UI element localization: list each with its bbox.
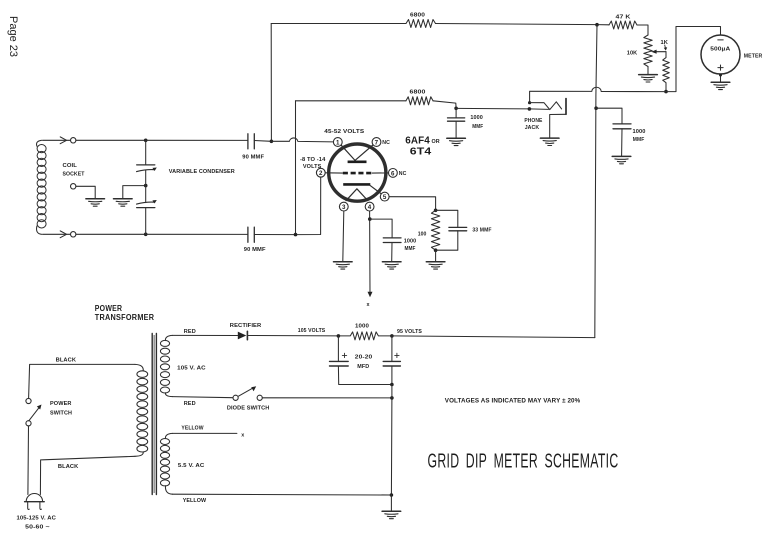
svg-text:6AF4: 6AF4: [405, 135, 430, 146]
pin 3: [339, 202, 348, 211]
resistor R 47K: [609, 21, 637, 29]
svg-text:MMF: MMF: [405, 246, 416, 252]
svg-text:20-20: 20-20: [355, 355, 373, 361]
svg-text:Page 23: Page 23: [7, 16, 19, 57]
ground (cathode pin 3): [334, 262, 353, 269]
phone jack upper spring contact: [530, 102, 562, 110]
svg-text:MFD: MFD: [357, 364, 369, 370]
variable condenser C1a (top section): [145, 140, 147, 164]
wire: bus to 1000 MMF bypass cap: [596, 108, 622, 124]
wire: B+ top rail from node above tube plate to 47K: [271, 23, 406, 25]
ground (detector cap): [447, 138, 466, 145]
capacitor 1000 MMF (detector): [455, 108, 457, 117]
variable condenser C1b (bottom section): [145, 186, 147, 203]
ground (heater bypass cap): [382, 262, 401, 269]
svg-text:6T4: 6T4: [410, 147, 432, 158]
svg-text:7: 7: [375, 139, 379, 146]
svg-text:105 VOLTS: 105 VOLTS: [298, 328, 326, 334]
svg-text:6: 6: [391, 170, 395, 177]
capacitor 20-20 MFD (output section): [391, 336, 393, 361]
phone jack lower contact wire: [529, 108, 548, 111]
svg-text:95 VOLTS: 95 VOLTS: [397, 329, 422, 335]
plus sign cap A: [342, 353, 346, 357]
transformer primary winding: [135, 364, 143, 370]
transformer T1 core: [151, 334, 153, 495]
wire: 90MMF to grid pin1 with hop over grid-leak drop: [254, 138, 333, 142]
potentiometer R 10K: [644, 35, 652, 67]
phone jack sleeve bar: [565, 99, 567, 115]
capacitor 90 MMF (bottom coupling): [248, 227, 254, 242]
svg-text:90 MMF: 90 MMF: [244, 247, 266, 253]
svg-text:x: x: [367, 302, 370, 308]
node 1K bottom / meter return: [664, 90, 668, 94]
svg-text:SOCKET: SOCKET: [63, 172, 85, 178]
pin 4: [365, 202, 374, 211]
coil L1 plug-in coil: [37, 140, 42, 146]
svg-text:YELLOW: YELLOW: [183, 498, 207, 504]
svg-text:JACK: JACK: [525, 125, 540, 131]
wire: BLACK primary top to power switch: [29, 364, 135, 398]
wire: meter bottom to ground: [720, 74, 722, 82]
svg-text:RED: RED: [184, 401, 196, 407]
cathode tap to pin 5: [370, 185, 381, 194]
wire: node to phone jack: [456, 107, 529, 110]
svg-text:x: x: [241, 432, 244, 438]
svg-text:50-60 ~: 50-60 ~: [25, 524, 50, 530]
svg-text:PHONE: PHONE: [524, 118, 542, 124]
transformer secondary 105V winding: [165, 335, 172, 340]
wire: pin 3 to ground: [343, 211, 344, 261]
wire: RED secondary top to rectifier: [173, 334, 238, 336]
svg-text:5.5 V. AC: 5.5 V. AC: [178, 463, 205, 469]
wire: RED secondary bottom to diode switch: [173, 397, 234, 398]
wire: switch to plug left prong: [27, 426, 30, 495]
wire: pin 5 to RC network: [389, 197, 436, 211]
pin 1: [333, 138, 342, 147]
power switch: [26, 398, 31, 403]
svg-text:1: 1: [336, 139, 340, 146]
ground (coil socket): [86, 199, 105, 206]
wire: headphone/meter return rail with hop over bus: [530, 87, 666, 102]
socket terminal circle (top): [71, 138, 76, 143]
wire: diode switch to B- bus: [262, 397, 392, 399]
meter M 500uA: [701, 35, 740, 74]
svg-text:5: 5: [383, 194, 387, 201]
svg-text:TRANSFORMER: TRANSFORMER: [95, 313, 155, 322]
tube grid element (dashed): [325, 172, 388, 174]
wire: tank top rail to 90MMF: [146, 139, 248, 141]
B- bus vertical: [390, 385, 393, 496]
wire: RC bottom to ground: [435, 250, 437, 261]
ground (condenser rotor): [114, 199, 133, 206]
wiper arrowhead: [651, 50, 656, 54]
pin 7: [372, 138, 381, 147]
node bus tap to 1000MMF bypass: [594, 106, 598, 110]
svg-text:COIL: COIL: [63, 163, 78, 169]
resistor R 100 (cathode): [431, 210, 439, 250]
diode switch: [233, 395, 238, 400]
svg-text:RECTIFIER: RECTIFIER: [230, 323, 262, 329]
resistor R 1000 (filter): [338, 332, 392, 340]
svg-text:33 MMF: 33 MMF: [472, 228, 492, 234]
svg-text:VOLTAGES AS INDICATED MAY VARY: VOLTAGES AS INDICATED MAY VARY ± 20%: [445, 397, 581, 404]
wire: top rail continues to 47K: [436, 24, 610, 25]
socket center terminal to ground: [71, 184, 76, 189]
wire: B- to ground: [390, 495, 392, 511]
svg-text:YELLOW: YELLOW: [181, 426, 204, 432]
svg-text:BLACK: BLACK: [58, 464, 79, 470]
ground (phone jack): [540, 138, 559, 145]
wiper arm of 10K pot to 1K: [655, 51, 667, 53]
wire: coil bottom to socket pin: [43, 233, 71, 235]
svg-text:NC: NC: [399, 171, 407, 177]
wire: 10K bottom to ground: [647, 67, 649, 75]
pin 5: [380, 192, 389, 201]
svg-text:4: 4: [368, 204, 372, 211]
capacitor 1000 MMF (bus bypass): [613, 124, 631, 129]
svg-text:100: 100: [418, 231, 427, 237]
tube V1 envelope: [329, 144, 386, 201]
svg-text:SWITCH: SWITCH: [50, 411, 72, 417]
svg-text:MMF: MMF: [633, 137, 645, 143]
svg-text:47 K: 47 K: [616, 15, 632, 21]
svg-text:1000: 1000: [470, 115, 483, 121]
connector arrow (top): [60, 137, 66, 144]
svg-text:1000: 1000: [355, 324, 369, 330]
socket terminal circle (bottom): [71, 232, 76, 237]
ground (meter): [711, 82, 730, 89]
wire: coil top to socket pin: [43, 139, 71, 141]
wire: 47K to 10K pot top: [637, 25, 648, 35]
pin 6: [389, 169, 398, 178]
node tank rail / plate feed: [270, 140, 274, 144]
wire: grid rail 6800 feed, vertical drop to cathode rail: [295, 101, 297, 235]
svg-text:105 V. AC: 105 V. AC: [177, 366, 206, 372]
svg-text:BLACK: BLACK: [56, 358, 77, 364]
wire: 90MMF to cathode-rail corner, up to pin 2: [254, 177, 320, 234]
wire: rectifier to filter node: [247, 335, 338, 337]
ground (cathode RC): [426, 262, 445, 269]
wire: jack sleeve to ground: [550, 114, 566, 137]
wire: 6800 to jack node: [433, 101, 456, 109]
svg-text:RED: RED: [184, 329, 196, 335]
plus sign cap B: [395, 353, 399, 357]
svg-text:OR: OR: [432, 139, 440, 145]
svg-text:105-125 V. AC: 105-125 V. AC: [17, 516, 57, 522]
wire: meter branch up and over: [666, 27, 721, 92]
node junction top rail / long vertical: [595, 23, 599, 27]
resistor R 6800 (top, plate load): [406, 20, 436, 28]
svg-text:VARIABLE CONDENSER: VARIABLE CONDENSER: [169, 169, 236, 175]
capacitor 20-20 MFD (input section): [337, 336, 339, 361]
wire: BLACK primary bottom to plug right prong: [40, 456, 135, 494]
wire: pin4 node to 1000MMF heater bypass: [370, 219, 392, 237]
wire: 95V rail to long vertical bus: [392, 336, 595, 338]
node 6800 / 1000MMF / jack: [454, 107, 458, 111]
svg-text:6800: 6800: [410, 90, 426, 96]
wire: vertical from top rail down to tank top rail: [270, 24, 272, 142]
long vertical bus from top rail down to 95V rail: [595, 25, 597, 338]
svg-text:45-52 VOLTS: 45-52 VOLTS: [324, 129, 364, 135]
svg-text:NC: NC: [382, 140, 390, 146]
wire: socket to variable condenser (tank top rail): [76, 139, 146, 141]
tube heater: [346, 189, 368, 201]
transformer secondary 5.5V winding: [165, 433, 172, 438]
resistor R 1K: [663, 52, 670, 92]
svg-text:VOLTS: VOLTS: [303, 164, 322, 170]
svg-text:POWER: POWER: [50, 401, 72, 407]
svg-text:MMF: MMF: [472, 124, 483, 130]
svg-text:2: 2: [319, 170, 323, 177]
AC plug: [26, 494, 42, 502]
svg-text:GRID DIP METER SCHEMATIC: GRID DIP METER SCHEMATIC: [428, 450, 619, 472]
svg-text:-8 TO -14: -8 TO -14: [300, 157, 326, 163]
svg-text:10K: 10K: [627, 50, 638, 56]
rectifier diode: [238, 332, 247, 340]
pin 2: [316, 168, 325, 177]
svg-text:1000: 1000: [404, 238, 417, 244]
tube cathode element: [343, 183, 370, 186]
ground (power supply): [382, 511, 401, 518]
svg-text:POWER: POWER: [95, 304, 123, 313]
svg-text:1000: 1000: [633, 129, 646, 135]
svg-text:DIODE SWITCH: DIODE SWITCH: [227, 405, 270, 411]
page number text "Page 23": [7, 16, 19, 57]
ground (10K pot): [639, 75, 658, 82]
svg-text:METER: METER: [744, 53, 763, 59]
svg-text:90 MMF: 90 MMF: [242, 154, 264, 160]
resistor R 6800 (grid): [406, 97, 433, 105]
node phone jack upper contact: [528, 101, 531, 104]
svg-text:6800: 6800: [410, 12, 425, 18]
ground (bus bypass cap): [612, 156, 631, 163]
svg-text:3: 3: [342, 204, 346, 211]
capacitor 33 MMF (parallel): [436, 210, 458, 227]
svg-text:500µA: 500µA: [710, 47, 731, 53]
wire: YELLOW heater return to B- bus: [173, 493, 392, 496]
capacitor 1000 MMF (heater bypass): [383, 238, 401, 243]
capacitor 90 MMF (top coupling): [248, 134, 254, 149]
wire: tank bottom rail: [76, 233, 146, 235]
connector arrow (bottom): [60, 231, 66, 238]
tube plate element: [341, 145, 373, 161]
wire: YELLOW heater lead to x: [173, 432, 237, 434]
wire: pin 4 heater lead down with arrow to X: [369, 211, 371, 293]
